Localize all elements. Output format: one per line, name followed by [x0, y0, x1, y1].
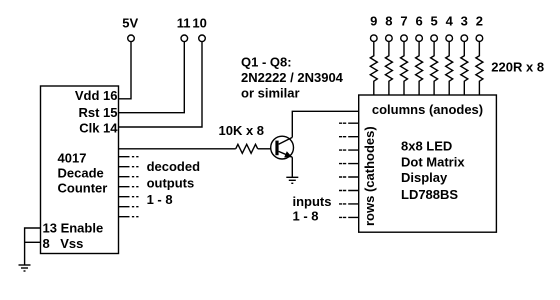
dashed stub U1 output 4: [119, 176, 139, 178]
IC U1 4017 decade counter body: [41, 86, 119, 254]
svg-text:7: 7: [400, 13, 407, 28]
svg-text:2: 2: [476, 13, 483, 28]
terminal 11 pad: [181, 35, 188, 42]
svg-text:1 - 8: 1 - 8: [293, 209, 319, 224]
terminal 5 (label and pad): [430, 13, 437, 41]
svg-text:10: 10: [192, 15, 206, 30]
svg-text:2N2222 / 2N3904: 2N2222 / 2N3904: [241, 70, 344, 85]
wire terminal 10 to U1 pin 14 Clk: [119, 42, 203, 127]
ground GND2: [286, 177, 298, 183]
svg-text:LD788BS: LD788BS: [401, 187, 458, 202]
dashed stub U1 output 5: [119, 186, 139, 188]
terminal 6 (label and pad): [415, 13, 422, 41]
svg-text:11: 11: [177, 15, 191, 30]
dashed stub DS1 row input 3: [339, 149, 359, 151]
wire terminal 11 to U1 pin 15 Rst: [119, 42, 185, 113]
terminal 9 (label and pad): [370, 13, 377, 41]
Q1 collector lead: [279, 137, 293, 144]
svg-text:5V: 5V: [122, 15, 138, 30]
svg-text:13 Enable: 13 Enable: [43, 221, 104, 236]
svg-text:Decade: Decade: [58, 166, 104, 181]
dashed stub U1 output 2: [119, 156, 139, 158]
wire 5V terminal to U1 pin 16 Vdd: [119, 42, 132, 99]
dashed stub DS1 row input 8: [339, 216, 359, 218]
dashed stub DS1 row input 7: [339, 203, 359, 205]
svg-text:6: 6: [415, 13, 422, 28]
dashed stub DS1 row input 5: [339, 176, 359, 178]
ground GND1: [19, 265, 31, 271]
dashed stub U1 output 8: [119, 216, 139, 218]
resistor R1 10K: [236, 144, 258, 153]
svg-text:Q1 - Q8:: Q1 - Q8:: [241, 55, 292, 70]
Q1 base bar: [275, 141, 278, 156]
svg-text:inputs: inputs: [293, 194, 332, 209]
svg-text:3: 3: [461, 13, 468, 28]
resistor 220R column 4 with leads: [446, 42, 453, 95]
wire Q1 emitter to ground: [291, 157, 293, 177]
resistor 220R column 5 with leads: [431, 42, 438, 95]
svg-text:Vdd 16: Vdd 16: [75, 88, 118, 103]
svg-text:4017: 4017: [58, 151, 87, 166]
Q1 emitter lead: [279, 151, 293, 157]
resistor 220R column 6 with leads: [416, 42, 423, 95]
svg-text:columns (anodes): columns (anodes): [372, 102, 483, 117]
wire U1 decoded output 1 to R1: [119, 148, 236, 150]
svg-text:Rst 15: Rst 15: [78, 105, 117, 120]
svg-text:Vss: Vss: [60, 236, 83, 251]
svg-text:Display: Display: [401, 170, 448, 185]
svg-text:Clk 14: Clk 14: [79, 121, 118, 136]
wire U1 pin 13 Enable to ground: [25, 228, 41, 265]
terminal 5V pad: [128, 35, 135, 42]
Q1 emitter arrow: [284, 151, 292, 157]
resistor 220R column 8 with leads: [385, 42, 392, 95]
dashed stub DS1 row input 1: [339, 122, 359, 124]
svg-text:Dot Matrix: Dot Matrix: [401, 154, 465, 169]
svg-text:Counter: Counter: [58, 181, 108, 196]
dashed stub U1 output 3: [119, 166, 139, 168]
svg-text:5: 5: [430, 13, 437, 28]
svg-text:4: 4: [446, 13, 454, 28]
resistor 220R column 7 with leads: [401, 42, 408, 95]
wire R1 to Q1 base: [258, 148, 271, 150]
terminal 8 (label and pad): [385, 13, 392, 41]
svg-text:1 - 8: 1 - 8: [147, 192, 173, 207]
resistor 220R column 2 with leads: [476, 42, 483, 95]
display DS1 8x8 LED dot matrix body: [359, 95, 497, 232]
svg-text:8x8 LED: 8x8 LED: [401, 138, 452, 153]
svg-text:8: 8: [43, 236, 50, 251]
svg-text:rows (cathodes): rows (cathodes): [362, 126, 377, 226]
dashed stub U1 output 7: [119, 206, 139, 208]
svg-text:8: 8: [385, 13, 392, 28]
terminal 4 (label and pad): [446, 13, 454, 41]
terminal 2 (label and pad): [476, 13, 483, 41]
dashed stub U1 output 6: [119, 196, 139, 198]
resistor 220R column 3 with leads: [461, 42, 468, 95]
svg-text:10K x 8: 10K x 8: [219, 123, 265, 138]
dashed stub DS1 row input 4: [339, 163, 359, 165]
terminal 7 (label and pad): [400, 13, 407, 41]
terminal 3 (label and pad): [461, 13, 468, 41]
svg-text:220R x 8: 220R x 8: [491, 59, 544, 74]
svg-text:outputs: outputs: [147, 176, 195, 191]
dashed stub DS1 row input 2: [339, 136, 359, 138]
dashed stub DS1 row input 6: [339, 190, 359, 192]
transistor Q1 body circle: [271, 136, 294, 159]
U1 pin label 8 Vss: [43, 236, 84, 251]
resistor 220R column 9 with leads: [370, 42, 377, 95]
svg-text:decoded: decoded: [147, 159, 201, 174]
terminal 10 pad: [199, 35, 206, 42]
svg-text:9: 9: [370, 13, 377, 28]
svg-text:or similar: or similar: [241, 86, 300, 101]
wire U1 pin 8 Vss to ground: [25, 241, 41, 243]
wire Q1 collector to display row input: [292, 111, 358, 137]
